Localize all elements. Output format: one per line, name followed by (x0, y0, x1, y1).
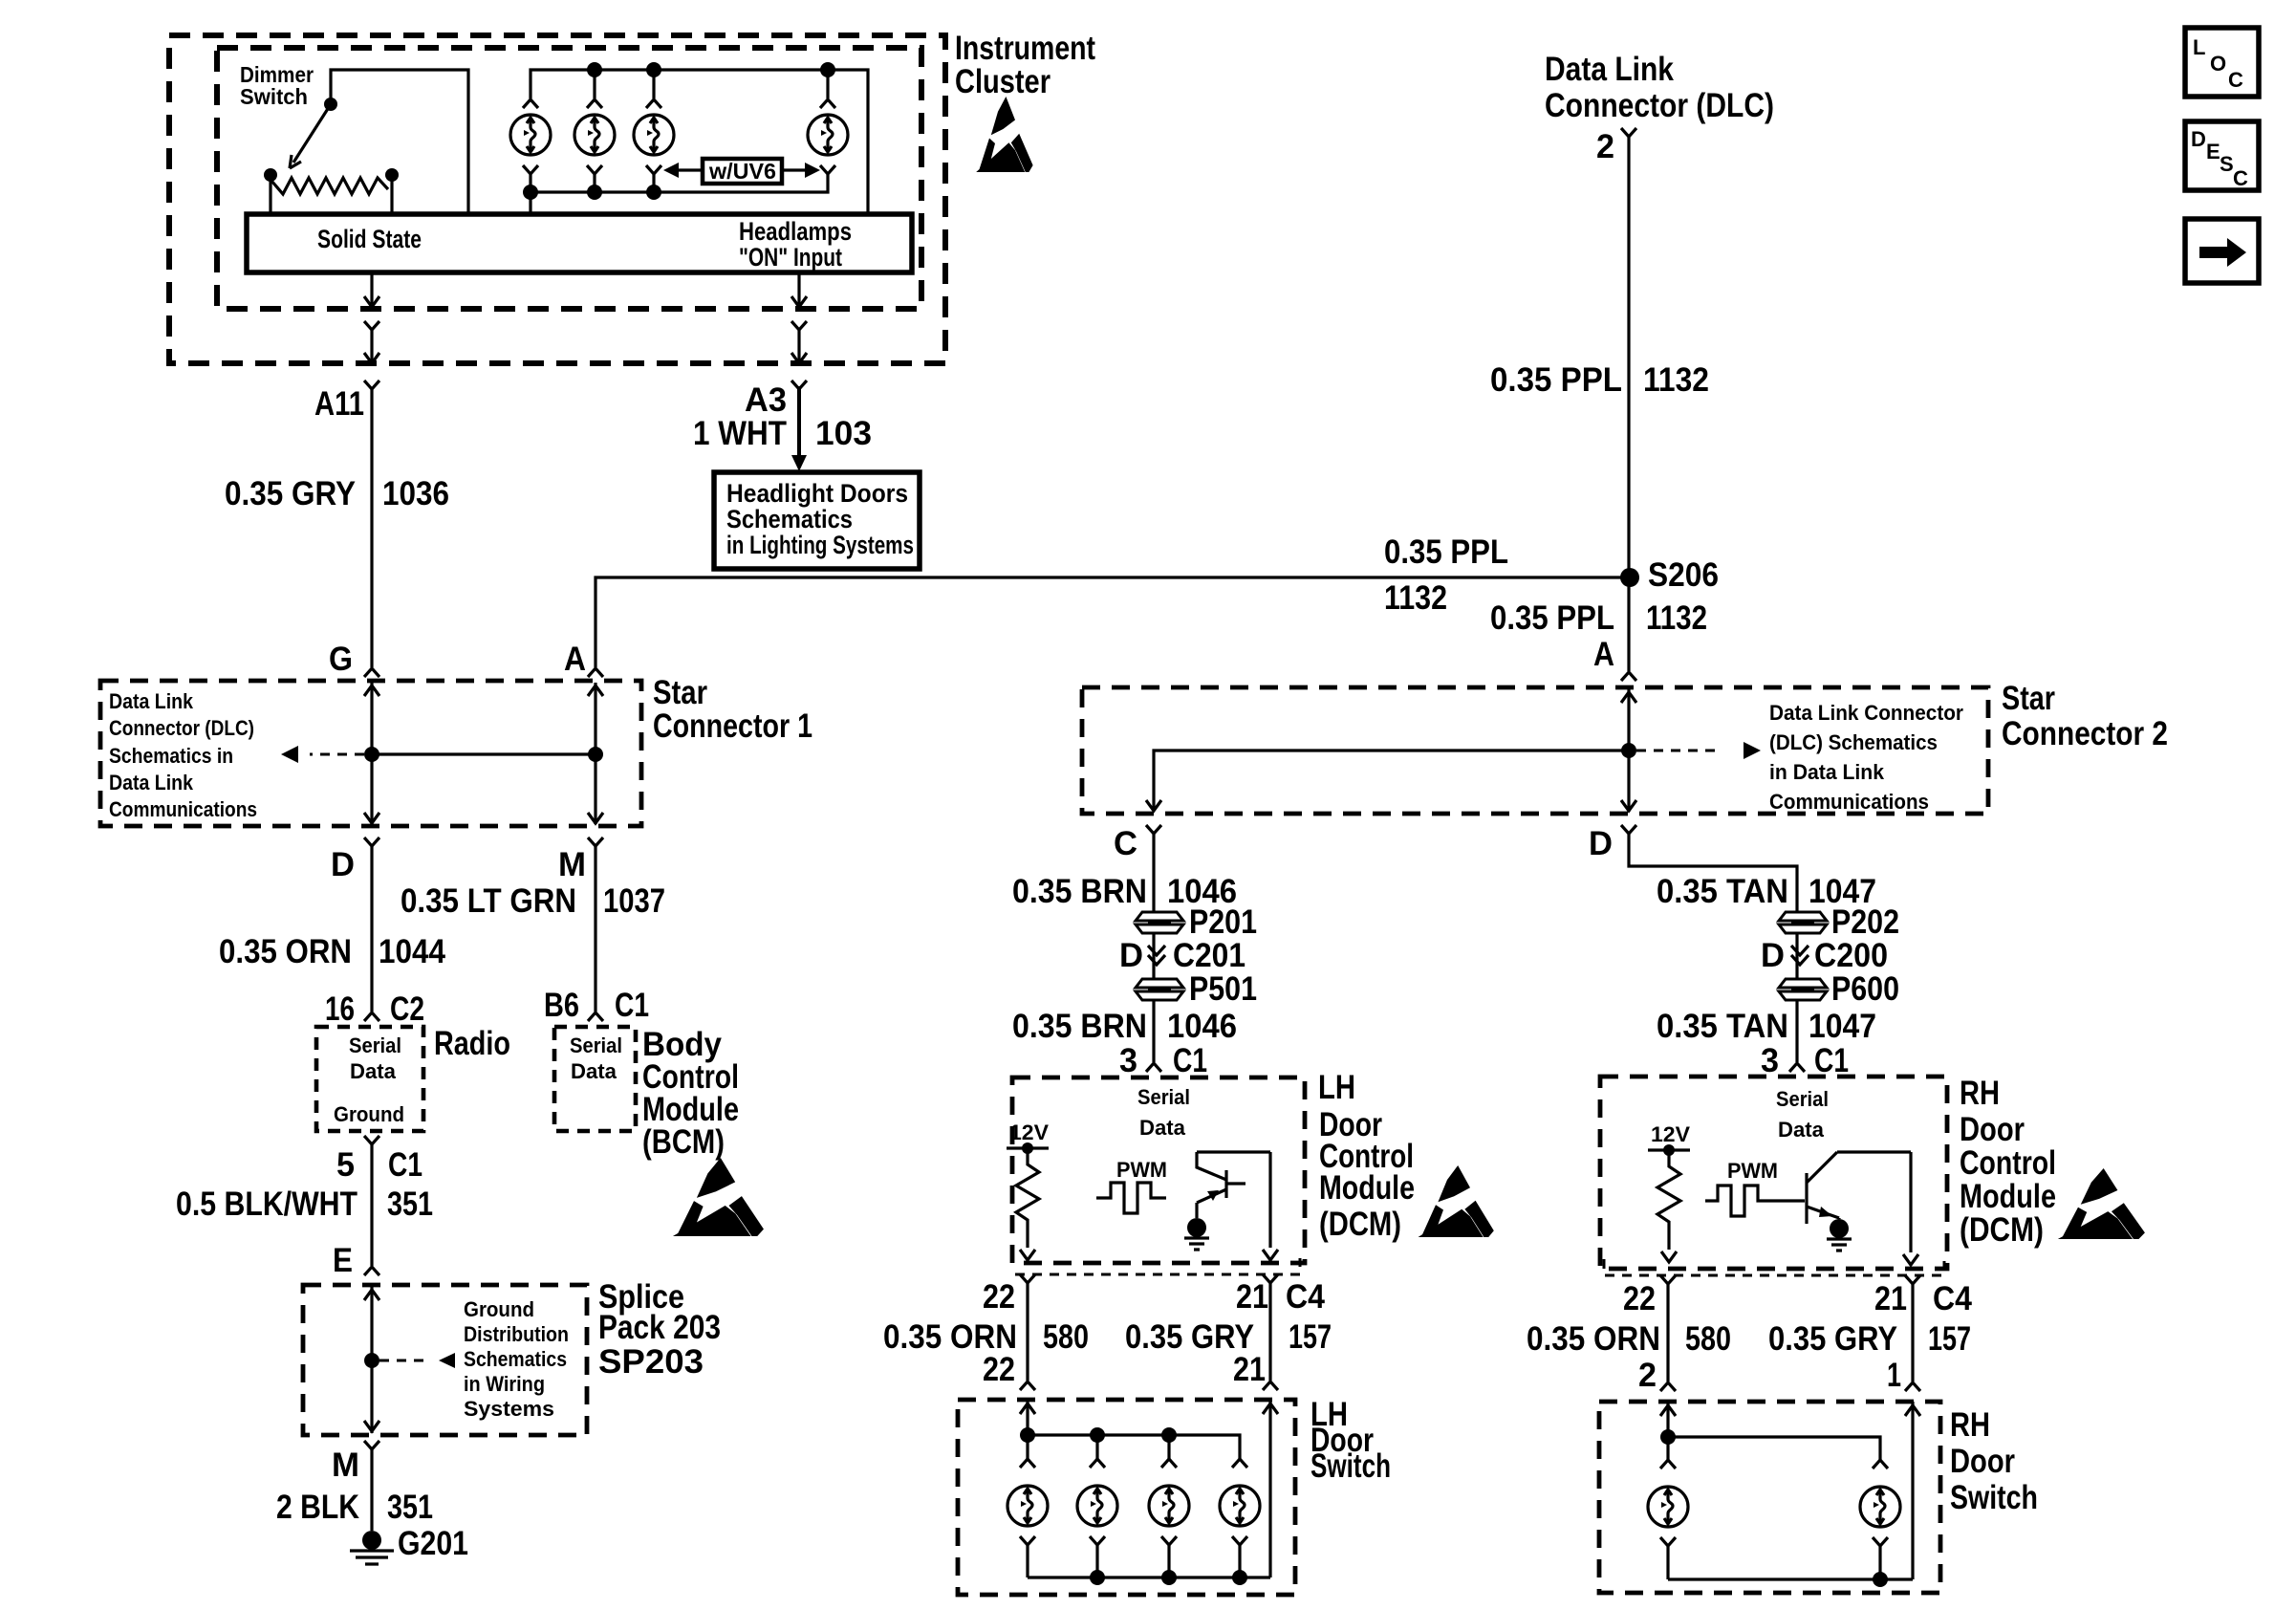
resistor (LH DCM pull-up) (1016, 1148, 1039, 1248)
svg-text:0.5 BLK/WHT: 0.5 BLK/WHT (176, 1186, 357, 1223)
LH door switch lamp 1 (1007, 1486, 1048, 1526)
connector C4 dashed outline (LH) (1015, 1258, 1300, 1274)
svg-text:Control: Control (1960, 1144, 2056, 1182)
wire pin 21 to door switch (1268, 1283, 1271, 1381)
wire A through star connector 2 (1627, 689, 1630, 812)
door switch terminals (1020, 1382, 1035, 1390)
svg-text:Schematics: Schematics (726, 505, 853, 533)
junction dot SP203 (364, 1353, 379, 1368)
connector chevrons A11 (364, 321, 379, 330)
wire D down to radio (370, 846, 373, 1012)
wire label 0.35 BRN 1046 (lower) (1152, 1001, 1155, 1062)
svg-text:Schematics in: Schematics in (109, 744, 233, 768)
LH door switch top bus (1028, 1435, 1240, 1459)
wire C down (1152, 834, 1155, 911)
dashed continuation arrow (to DLC schematics) (1636, 750, 1721, 752)
svg-text:Serial: Serial (570, 1033, 622, 1057)
wire 0.35 PPL 1132 horizontal (S206 branch) (596, 577, 1630, 667)
pin 21 terminal (LH DCM) (1263, 1274, 1278, 1283)
svg-text:G201: G201 (398, 1525, 468, 1562)
wire A3 exit from solid state (797, 272, 800, 304)
wire pin 22 to door switch (1026, 1283, 1029, 1381)
wire label 0.35 TAN 1047 (lower) (1795, 1001, 1798, 1062)
svg-text:0.35 GRY: 0.35 GRY (1768, 1320, 1897, 1358)
svg-text:B6: B6 (544, 987, 579, 1024)
svg-text:Door: Door (1950, 1443, 2015, 1480)
svg-text:2: 2 (1638, 1357, 1657, 1394)
pass-through connector P600 (1779, 979, 1827, 1000)
ESD symbol (RH DCM) (2058, 1168, 2145, 1239)
body control module dashed box (554, 1027, 636, 1131)
svg-text:22: 22 (1623, 1280, 1656, 1317)
svg-text:(DCM): (DCM) (1960, 1211, 2044, 1249)
svg-text:Connector (DLC): Connector (DLC) (109, 716, 254, 740)
wire pin 22 to RH door switch (1666, 1284, 1669, 1382)
star connector 2 dashed box (1082, 687, 1988, 814)
terminal A11 (364, 381, 379, 389)
instrument cluster inner dashed box (217, 48, 921, 309)
terminals above RH door switch lamps (1660, 1460, 1676, 1469)
DESC box (2185, 121, 2259, 190)
ESD symbol (instrument cluster) (976, 97, 1032, 172)
svg-text:157: 157 (1928, 1320, 1971, 1358)
RH door switch lamp 2 (1860, 1487, 1900, 1527)
star connector 1 dashed box (100, 681, 641, 826)
wire transistor output to pin 21 (1268, 1152, 1271, 1248)
svg-text:1036: 1036 (382, 475, 449, 512)
ESD symbol (LH DCM) (1419, 1165, 1494, 1237)
svg-text:E: E (2206, 140, 2220, 163)
svg-text:12V: 12V (1009, 1120, 1049, 1144)
wire M down to BCM (594, 846, 596, 1012)
svg-text:22: 22 (983, 1278, 1015, 1316)
svg-text:Pack 203: Pack 203 (598, 1309, 721, 1346)
wire pin 1 into RH door switch (1911, 1402, 1914, 1579)
svg-text:in Lighting Systems: in Lighting Systems (726, 531, 914, 559)
svg-text:0.35 BRN: 0.35 BRN (1012, 873, 1147, 910)
svg-text:2 BLK: 2 BLK (276, 1489, 359, 1526)
wire pin 21 into LH door switch (1268, 1400, 1271, 1577)
connector C4 dashed outline (RH) (1604, 1259, 1944, 1275)
dashed continuation arrow (to DLC schematics) (310, 753, 364, 756)
svg-text:0.35 TAN: 0.35 TAN (1657, 1008, 1788, 1045)
svg-text:in Wiring: in Wiring (464, 1372, 545, 1396)
lamp stems (1028, 1435, 1169, 1459)
svg-text:Data: Data (350, 1059, 397, 1083)
svg-text:(BCM): (BCM) (642, 1123, 725, 1161)
wire A11 down to G (370, 389, 373, 667)
svg-text:A: A (1593, 636, 1614, 673)
wire bridge inside star connector 2 (1154, 751, 1629, 811)
svg-text:SP203: SP203 (598, 1343, 704, 1381)
svg-text:21: 21 (1236, 1278, 1268, 1316)
wire bridge inside star connector 1 (372, 752, 596, 755)
svg-text:C2: C2 (390, 990, 424, 1028)
svg-text:Switch: Switch (240, 84, 308, 109)
svg-text:0.35 LT GRN: 0.35 LT GRN (401, 882, 576, 920)
PWM waveform (1096, 1183, 1166, 1213)
svg-text:Connector (DLC): Connector (DLC) (1545, 87, 1774, 124)
svg-text:Door: Door (1960, 1111, 2025, 1148)
svg-text:C1: C1 (388, 1146, 422, 1184)
svg-text:0.35 BRN: 0.35 BRN (1012, 1008, 1147, 1045)
svg-text:3: 3 (1761, 1042, 1779, 1079)
svg-text:Data Link Connector: Data Link Connector (1769, 701, 1963, 725)
svg-text:D: D (2191, 127, 2206, 151)
svg-text:PWM: PWM (1727, 1159, 1778, 1183)
svg-text:(DLC) Schematics: (DLC) Schematics (1769, 730, 1938, 754)
pin 5 C1 (radio ground) (364, 1136, 379, 1144)
svg-text:Data: Data (571, 1059, 617, 1083)
svg-text:C200: C200 (1814, 937, 1888, 974)
svg-text:Communications: Communications (1769, 790, 1929, 814)
RH door switch bottom bus (1668, 1546, 1913, 1579)
svg-text:A: A (564, 641, 586, 678)
junction dot (364, 747, 379, 762)
svg-text:0.35 PPL: 0.35 PPL (1384, 533, 1508, 571)
svg-text:16: 16 (325, 990, 355, 1028)
svg-text:351: 351 (387, 1186, 433, 1223)
svg-text:Data: Data (1778, 1118, 1825, 1142)
svg-text:Module: Module (1960, 1178, 2056, 1215)
svg-text:Serial: Serial (349, 1033, 401, 1057)
svg-text:in Data Link: in Data Link (1769, 760, 1885, 784)
svg-text:PWM: PWM (1116, 1158, 1167, 1182)
svg-text:Solid State: Solid State (317, 225, 422, 253)
wire 2 BLK 351 (370, 1449, 373, 1531)
svg-text:Connector 2: Connector 2 (2002, 715, 2168, 752)
svg-text:C4: C4 (1286, 1278, 1325, 1316)
wire pin 22 into LH door switch (1026, 1400, 1029, 1435)
svg-text:Cluster: Cluster (955, 63, 1051, 100)
svg-text:1047: 1047 (1809, 1008, 1876, 1045)
wire S206 down to A (1627, 577, 1630, 671)
dimmer switch wiper arm (293, 104, 331, 163)
terminals below RH door switch lamps (1660, 1537, 1676, 1546)
wire between P202 and P600 (1795, 934, 1798, 978)
svg-text:C4: C4 (1933, 1280, 1972, 1317)
svg-text:Headlight Doors: Headlight Doors (726, 479, 908, 508)
svg-text:Star: Star (2002, 680, 2055, 717)
wire D down and over (1629, 834, 1797, 911)
svg-text:0.35 ORN: 0.35 ORN (219, 933, 352, 970)
LH door switch dashed box (958, 1400, 1295, 1595)
svg-text:580: 580 (1685, 1320, 1731, 1358)
transistor Q (LH DCM driver) (1197, 1152, 1270, 1218)
wire between P201 and P501 (1152, 934, 1155, 978)
wire A11 exit from solid state (370, 272, 373, 304)
headlight doors reference box (714, 472, 920, 569)
LH door switch lamp 4 (1220, 1486, 1260, 1526)
cluster illumination lamp 1 (510, 115, 551, 155)
svg-text:Star: Star (653, 674, 707, 711)
svg-text:Distribution: Distribution (464, 1322, 569, 1346)
svg-text:D: D (331, 846, 355, 883)
svg-text:0.35 ORN: 0.35 ORN (1527, 1320, 1660, 1358)
ESD symbol (BCM) (673, 1158, 764, 1236)
pass-through connector P201 (1136, 912, 1183, 933)
RH door switch dashed box (1599, 1402, 1940, 1593)
RH DCM dashed box (1600, 1077, 1947, 1269)
terminal connectors below cluster lamps (523, 165, 538, 174)
wire A3 to headlight doors (797, 386, 801, 459)
svg-text:(DCM): (DCM) (1319, 1206, 1401, 1243)
svg-text:Schematics: Schematics (464, 1347, 567, 1371)
lamp stem (1666, 1437, 1669, 1460)
RH door switch top bus (1668, 1437, 1880, 1460)
svg-text:C1: C1 (1173, 1042, 1207, 1079)
cluster illumination lamp 3 (634, 115, 674, 155)
svg-text:Switch: Switch (1310, 1447, 1391, 1485)
svg-text:C: C (2228, 68, 2243, 92)
instrument cluster outer dashed box (169, 35, 945, 363)
dashed continuation arrow (ground distribution) (379, 1360, 426, 1362)
svg-text:D: D (1761, 937, 1785, 974)
svg-text:Communications: Communications (109, 797, 257, 821)
svg-text:Data Link: Data Link (109, 771, 194, 794)
ground G201 (350, 1531, 394, 1564)
resistor (dimmer rheostat) (264, 168, 277, 182)
svg-text:0.35 GRY: 0.35 GRY (225, 475, 356, 512)
svg-text:Serial: Serial (1137, 1085, 1190, 1109)
splice pack dashed box (303, 1285, 587, 1435)
svg-text:P202: P202 (1831, 903, 1899, 941)
svg-text:Data Link: Data Link (1545, 51, 1674, 88)
svg-text:1037: 1037 (603, 882, 665, 920)
dimmer switch wiper wire (331, 70, 468, 214)
svg-text:S: S (2220, 152, 2234, 176)
svg-text:"ON" Input: "ON" Input (739, 243, 842, 272)
wire A through star connector 1 (594, 683, 596, 824)
svg-text:Data: Data (1139, 1116, 1186, 1140)
ground (RH DCM transistor) (1830, 1219, 1849, 1238)
svg-text:M: M (332, 1447, 359, 1484)
wire radio ground down (370, 1144, 373, 1266)
svg-text:1: 1 (1887, 1357, 1901, 1394)
svg-text:LH: LH (1318, 1069, 1355, 1106)
svg-text:0.35 PPL: 0.35 PPL (1490, 361, 1622, 399)
svg-text:21: 21 (1874, 1280, 1907, 1317)
pin 21 terminal (RH DCM) (1905, 1275, 1920, 1284)
svg-text:G: G (329, 641, 353, 678)
wire bottom bus drop to solid state (529, 192, 531, 214)
cluster illumination lamp 4 (808, 115, 848, 155)
svg-text:RH: RH (1960, 1075, 2000, 1112)
wire through splice pack (370, 1287, 373, 1433)
svg-text:E: E (333, 1242, 353, 1279)
pin 22 terminal (RH DCM) (1660, 1275, 1676, 1284)
svg-text:Ground: Ground (334, 1102, 404, 1126)
svg-text:M: M (558, 846, 586, 883)
svg-text:157: 157 (1289, 1318, 1332, 1356)
transistor Q (RH DCM driver) (1774, 1152, 1911, 1224)
PWM waveform (1705, 1186, 1774, 1216)
solid state box (247, 214, 912, 272)
svg-text:Data Link: Data Link (109, 689, 194, 713)
svg-text:Instrument: Instrument (955, 30, 1095, 67)
svg-text:2: 2 (1596, 128, 1614, 165)
svg-text:Module: Module (1319, 1169, 1415, 1207)
svg-text:1132: 1132 (1646, 599, 1707, 637)
wire transistor output to pin 21 (1909, 1152, 1912, 1252)
svg-text:RH: RH (1950, 1406, 1990, 1444)
svg-text:351: 351 (387, 1489, 433, 1526)
radio dashed box (316, 1027, 423, 1131)
forward arrow box (2185, 219, 2259, 283)
svg-text:5: 5 (336, 1146, 355, 1184)
svg-text:O: O (2210, 52, 2226, 76)
LH door switch lamp 2 (1077, 1486, 1117, 1526)
svg-text:C1: C1 (615, 987, 649, 1024)
svg-text:L: L (2193, 35, 2205, 59)
svg-text:580: 580 (1043, 1318, 1089, 1356)
connector chevrons A3 (791, 321, 807, 330)
svg-text:P600: P600 (1831, 970, 1899, 1008)
svg-text:D: D (1589, 825, 1613, 862)
w/UV6 option box (703, 159, 782, 184)
LH door switch bottom bus (1028, 1545, 1270, 1577)
w/UV6 right arrow (782, 168, 807, 171)
svg-text:C: C (1114, 825, 1137, 862)
LH DCM dashed box (1012, 1077, 1305, 1263)
RH door switch lamp 1 (1648, 1487, 1688, 1527)
svg-text:1046: 1046 (1167, 1008, 1237, 1045)
junction dots on top bus (587, 62, 602, 77)
splice S206 (1620, 568, 1639, 587)
wire pin 2 into RH door switch (1666, 1402, 1669, 1437)
wire G through star connector 1 (370, 683, 373, 824)
dimmer switch pivot junction (324, 98, 337, 111)
svg-text:D: D (1119, 937, 1143, 974)
w/UV6 left arrow (677, 168, 703, 171)
wire lamp top bus (531, 70, 868, 214)
svg-text:1132: 1132 (1384, 579, 1447, 617)
wire pin 21 to RH door switch (1911, 1284, 1914, 1382)
svg-text:Systems: Systems (464, 1397, 554, 1421)
pass-through connector P501 (1136, 979, 1183, 1000)
RH door switch terminals (1660, 1382, 1676, 1391)
svg-text:Ground: Ground (464, 1297, 534, 1321)
svg-text:103: 103 (815, 415, 872, 452)
junction dot (588, 747, 603, 762)
cluster illumination lamp 2 (574, 115, 615, 155)
lamp stems from top bus (595, 70, 828, 98)
svg-text:Serial: Serial (1776, 1087, 1829, 1111)
wire lamp bottom bus (531, 174, 828, 192)
wire DLC pin 2 down (1627, 137, 1630, 577)
svg-text:C1: C1 (1814, 1042, 1849, 1079)
terminals below LH door switch lamps (1020, 1536, 1035, 1545)
svg-text:0.35 PPL: 0.35 PPL (1490, 599, 1614, 637)
svg-text:A11: A11 (314, 385, 364, 423)
svg-text:P501: P501 (1189, 970, 1257, 1008)
svg-text:0.35 TAN: 0.35 TAN (1657, 873, 1788, 910)
svg-text:1132: 1132 (1643, 361, 1709, 399)
svg-text:Headlamps: Headlamps (739, 217, 852, 246)
svg-text:1 WHT: 1 WHT (693, 415, 787, 452)
junction dot (1621, 743, 1636, 758)
svg-text:w/UV6: w/UV6 (708, 159, 776, 184)
svg-text:3: 3 (1119, 1042, 1137, 1079)
resistor (RH DCM pull-up) (1657, 1150, 1680, 1250)
svg-text:1044: 1044 (379, 933, 445, 970)
svg-text:A3: A3 (745, 381, 787, 419)
svg-text:P201: P201 (1189, 903, 1257, 941)
pass-through connector P202 (1779, 912, 1827, 933)
svg-text:Switch: Switch (1950, 1479, 2038, 1516)
LOC box (2185, 28, 2259, 97)
svg-text:Radio: Radio (434, 1025, 510, 1062)
terminals above LH door switch lamps (1020, 1459, 1035, 1468)
svg-text:C: C (2233, 166, 2248, 190)
svg-text:22: 22 (983, 1351, 1015, 1388)
terminal A3 (791, 381, 807, 389)
svg-text:S206: S206 (1648, 556, 1719, 594)
svg-text:12V: 12V (1651, 1122, 1690, 1146)
svg-text:Connector 1: Connector 1 (653, 707, 812, 745)
svg-text:C201: C201 (1173, 937, 1245, 974)
pin 22 terminal (LH DCM) (1020, 1274, 1035, 1283)
LH door switch lamp 3 (1149, 1486, 1189, 1526)
svg-text:21: 21 (1233, 1351, 1266, 1388)
terminal connectors above cluster lamps (523, 99, 538, 108)
ground (LH DCM transistor) (1187, 1218, 1206, 1237)
